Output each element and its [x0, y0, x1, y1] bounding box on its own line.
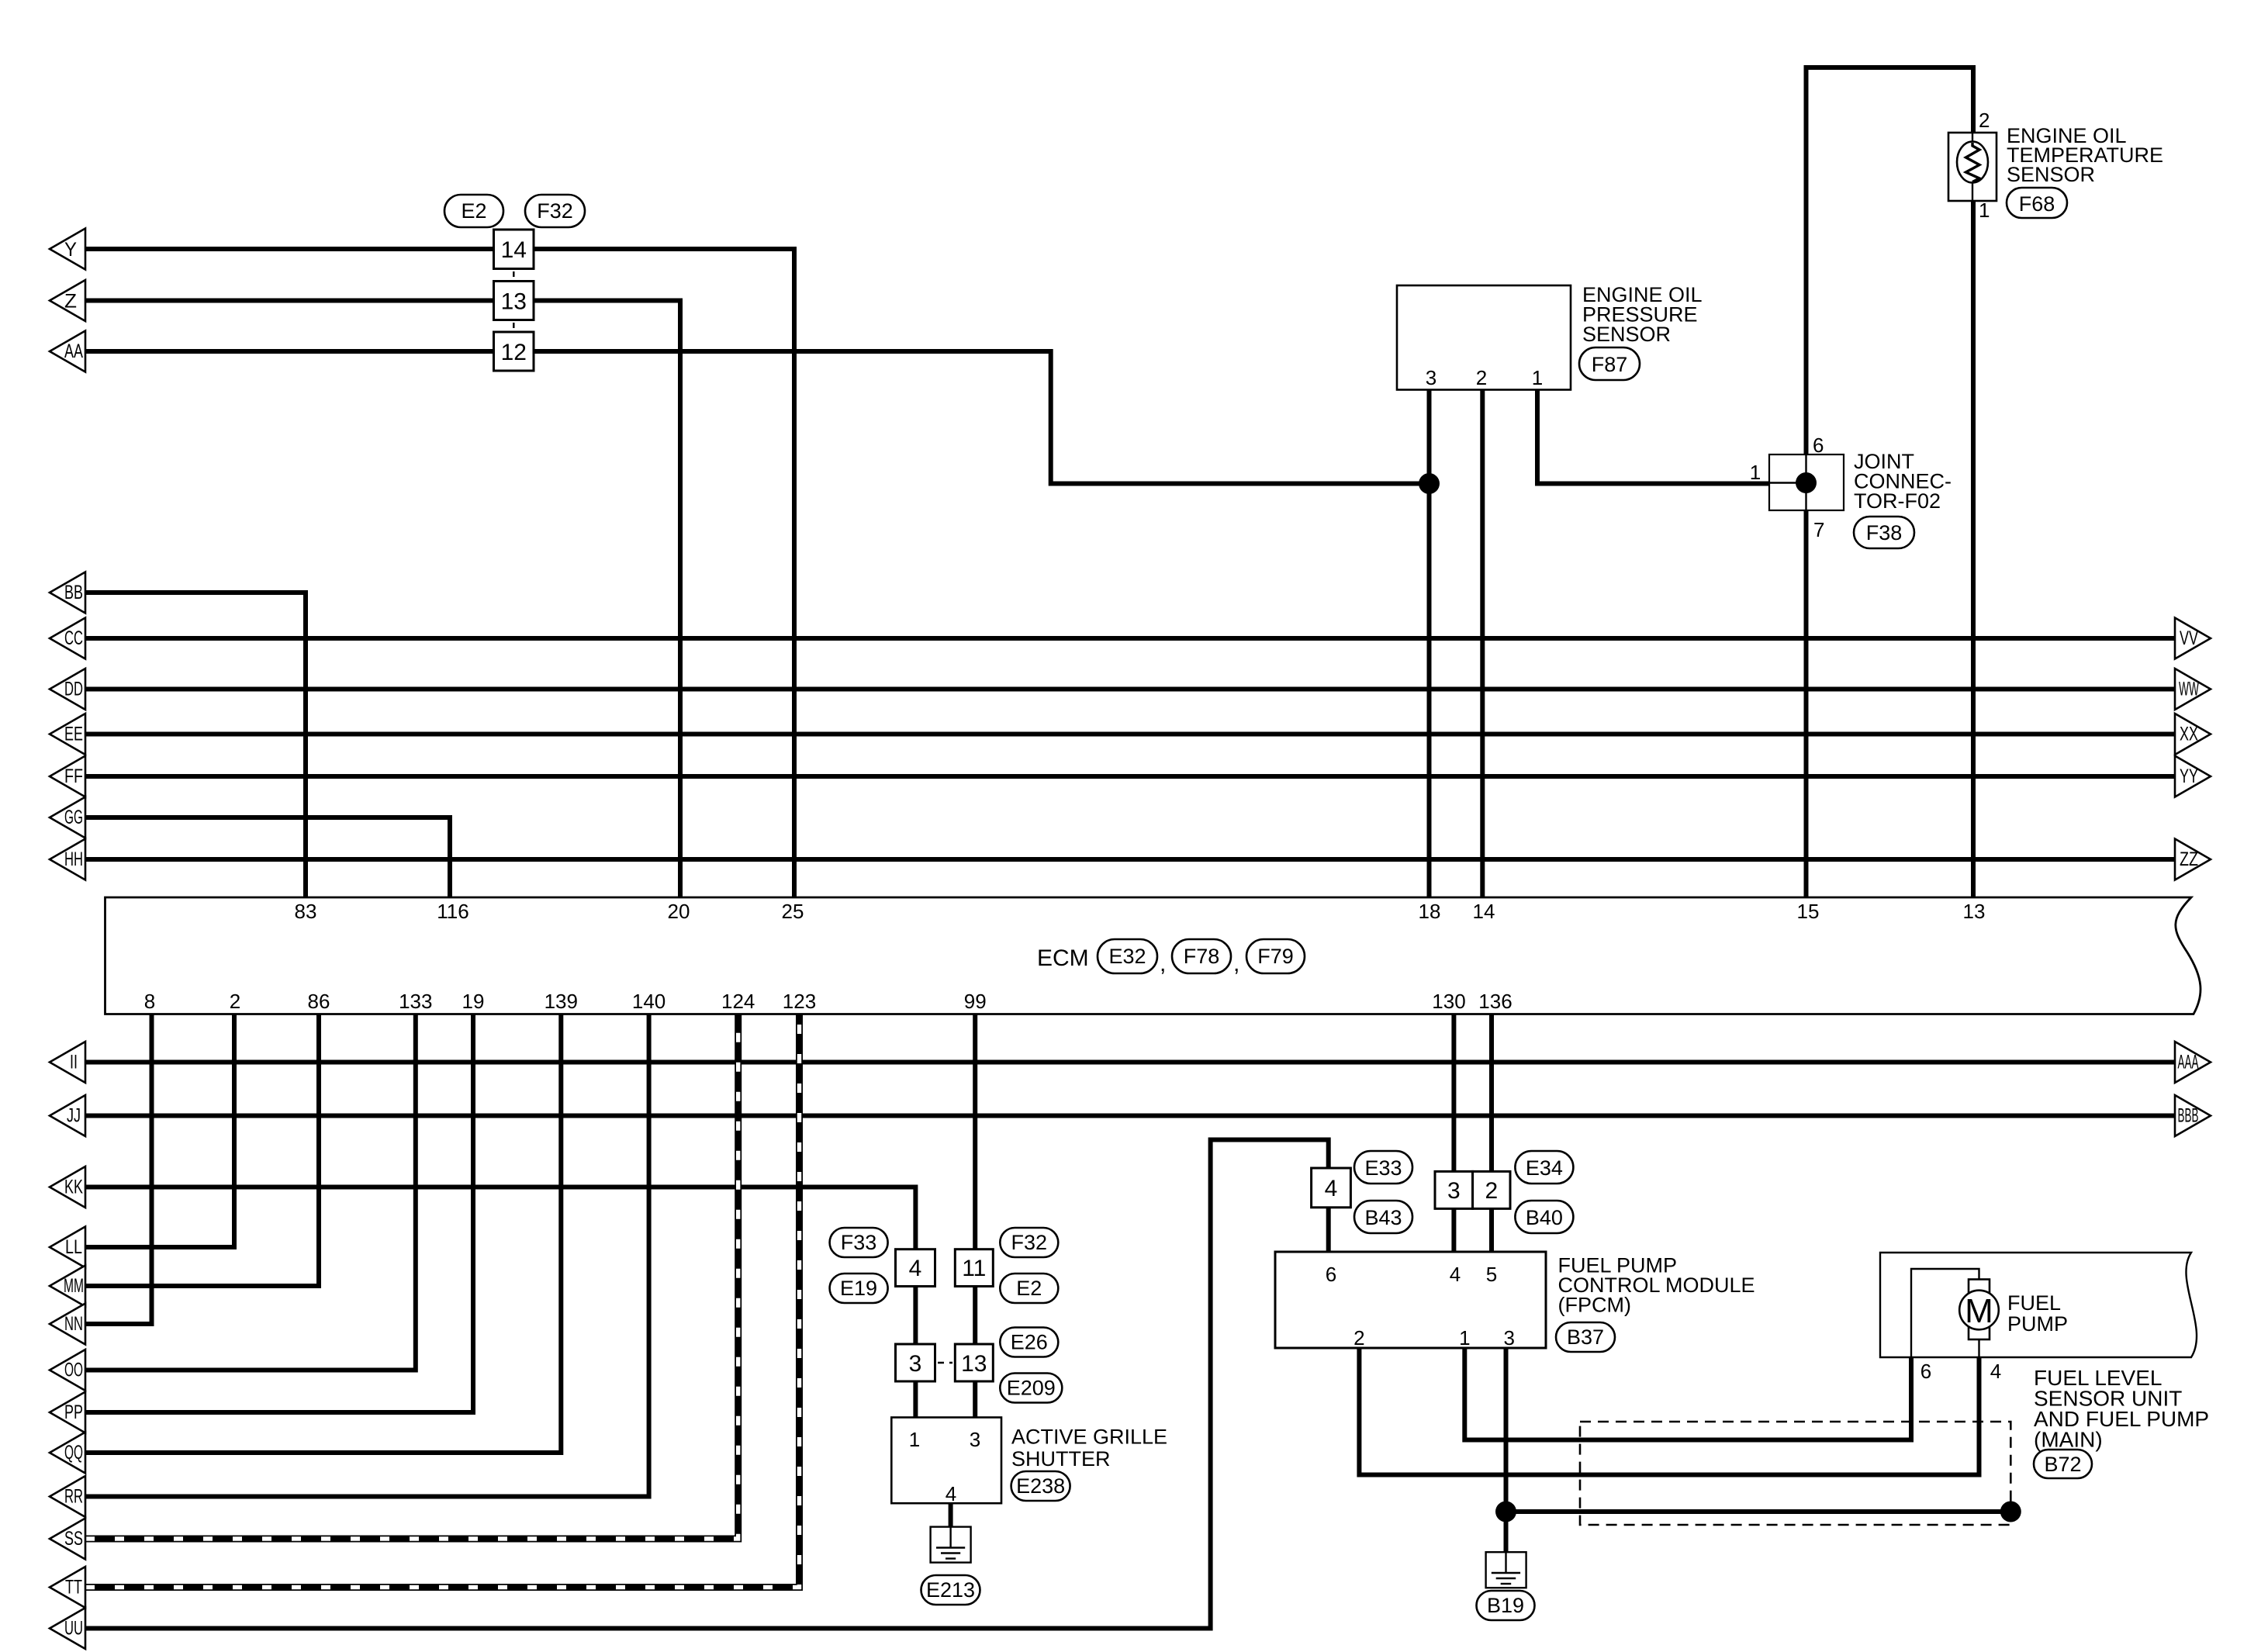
- svg-text:13: 13: [1963, 900, 1986, 923]
- svg-text:3: 3: [1503, 1326, 1514, 1350]
- wire connector 11 to connector 13 on pin 99 column: [973, 1285, 977, 1345]
- wire oil temp sensor pin 1 down to ECM pin 13: [1971, 201, 1976, 897]
- junction node dot fuel level sensor case: [2000, 1502, 2021, 1522]
- svg-text:KK: KK: [64, 1177, 83, 1198]
- arrow GG: [50, 797, 85, 838]
- svg-text:2: 2: [1979, 109, 1990, 132]
- svg-text:14: 14: [501, 237, 527, 263]
- svg-text:1: 1: [1750, 461, 1761, 484]
- fuel pump motor circle: [1959, 1291, 1999, 1330]
- svg-text:SENSOR: SENSOR: [1582, 323, 1671, 346]
- svg-text:5: 5: [1486, 1263, 1497, 1286]
- connector E33/B43 pin 4 box on UU column: [1312, 1168, 1351, 1208]
- connector oval F38: [1854, 517, 1914, 548]
- svg-text:2: 2: [230, 990, 240, 1013]
- arrow WW: [2175, 669, 2211, 710]
- connector oval F68: [2007, 188, 2067, 218]
- svg-text:136: 136: [1478, 990, 1512, 1013]
- connector E2/F32 pin 14 box on Y row: [494, 230, 534, 269]
- svg-text:6: 6: [1813, 434, 1824, 457]
- connector F32/E2 pin 11 box on pin 99 column: [955, 1249, 993, 1287]
- svg-text:2: 2: [1476, 366, 1487, 389]
- arrow ZZ: [2175, 839, 2211, 880]
- arrow II: [50, 1042, 85, 1083]
- svg-text:E238: E238: [1016, 1474, 1065, 1498]
- svg-text:86: 86: [308, 990, 330, 1013]
- svg-text:15: 15: [1797, 900, 1820, 923]
- svg-text:11: 11: [962, 1256, 986, 1281]
- svg-text:3: 3: [1426, 366, 1436, 389]
- svg-text:ZZ: ZZ: [2180, 848, 2198, 870]
- svg-text:13: 13: [961, 1351, 987, 1377]
- svg-text:E2: E2: [1016, 1277, 1042, 1300]
- wire KK row to connector F33/E19 pin 4 column: [85, 1187, 915, 1251]
- svg-text:F32: F32: [537, 199, 573, 223]
- svg-text:F79: F79: [1257, 945, 1294, 968]
- connector oval B72: [2034, 1450, 2092, 1478]
- svg-text:1: 1: [1459, 1326, 1470, 1350]
- wire DD row full width to arrow WW: [85, 687, 2175, 692]
- connector oval F32 mid: [1000, 1228, 1058, 1257]
- svg-text:133: 133: [399, 990, 432, 1013]
- wire JJ row full width to arrow BBB: [85, 1114, 2175, 1118]
- ECM box E32 F78 F79 with torn right edge: [105, 897, 2201, 1014]
- wire FF row full width to arrow YY: [85, 774, 2175, 779]
- svg-text:ECM: ECM: [1037, 945, 1089, 971]
- svg-text:B72: B72: [2044, 1453, 2081, 1476]
- joint connector internal bus: [1769, 454, 1806, 510]
- svg-text:EE: EE: [64, 724, 83, 745]
- svg-text:WW: WW: [2179, 679, 2199, 700]
- wire active grille shutter pin 4 to ground E213: [949, 1503, 953, 1527]
- wire PP row to ECM pin 19 vertical: [85, 1014, 473, 1413]
- svg-text:F33: F33: [841, 1231, 877, 1254]
- connector oval E33: [1354, 1151, 1412, 1184]
- wire UU row rising to connector E33/B43 pin 4 then FPCM pin 6: [85, 1140, 1329, 1629]
- svg-text:F87: F87: [1592, 353, 1628, 376]
- connector E34/B40 pin 2 box: [1473, 1171, 1510, 1208]
- connector dash link 14-13: [513, 271, 514, 279]
- fuel pump internal lead pin 6: [1911, 1269, 1979, 1357]
- svg-text:3: 3: [909, 1351, 922, 1377]
- wire ECM pin 136 down to connector E34/B40 pin 2: [1489, 1014, 1494, 1173]
- svg-text:LL: LL: [65, 1236, 82, 1258]
- svg-text:Z: Z: [64, 291, 77, 313]
- wire pressure sensor pin 3 down to ECM pin 18: [1427, 390, 1432, 898]
- svg-text:B19: B19: [1487, 1594, 1524, 1617]
- svg-text:12: 12: [501, 340, 527, 365]
- wire MM row to ECM pin 86 vertical: [85, 1014, 319, 1287]
- arrow SS: [50, 1519, 85, 1560]
- connector oval E2: [444, 195, 503, 227]
- svg-text:19: 19: [462, 990, 485, 1013]
- wire between connector 4 and connector 3 on KK column: [913, 1285, 918, 1345]
- arrow VV: [2175, 618, 2211, 659]
- wire ECM pin 99 down to connector F32/E2 pin 11: [973, 1014, 977, 1251]
- svg-text:B43: B43: [1364, 1206, 1402, 1229]
- engine oil temperature sensor box: [1948, 133, 1997, 201]
- arrow XX: [2175, 714, 2211, 755]
- wire AA row from arrow AA right, down, right to junction at pressure sensor pin 3: [85, 351, 1430, 484]
- wire connector 13 to active grille shutter pin 3: [973, 1381, 977, 1419]
- thermistor ellipse: [1957, 142, 1988, 183]
- svg-text:4: 4: [1450, 1263, 1461, 1286]
- connector oval E2 mid: [1000, 1274, 1058, 1303]
- wire GG row from arrow GG to corner then down to ECM pin 116: [85, 817, 450, 897]
- svg-text:130: 130: [1432, 990, 1465, 1013]
- connector E2/F32 pin 12 box on AA row: [494, 332, 534, 371]
- dashed wire TT row to ECM pin 123 vertical: [85, 1014, 800, 1588]
- arrow QQ: [50, 1433, 85, 1474]
- svg-text:BBB: BBB: [2178, 1105, 2199, 1127]
- wire FPCM pin 2 to fuel pump pin 4: [1359, 1348, 1979, 1475]
- wire joint connector pin 7 down to ECM pin 15: [1804, 510, 1809, 897]
- svg-text:2: 2: [1485, 1178, 1498, 1204]
- connector oval E238: [1011, 1471, 1070, 1501]
- fuel pump motor terminal block: [1969, 1280, 1990, 1340]
- connector oval E213: [921, 1575, 980, 1605]
- svg-text:XX: XX: [2180, 724, 2198, 745]
- wire BB row from arrow BB to corner then down to ECM pin 83: [85, 593, 306, 897]
- svg-text:TT: TT: [65, 1577, 82, 1598]
- svg-text:M: M: [1965, 1292, 1993, 1330]
- svg-text:3: 3: [1447, 1178, 1461, 1204]
- svg-text:3: 3: [970, 1428, 980, 1451]
- svg-text:F32: F32: [1011, 1231, 1048, 1254]
- svg-text:OO: OO: [64, 1360, 83, 1381]
- wire connector 2 to FPCM pin 5: [1489, 1208, 1494, 1252]
- fuel pump assembly box with torn right edge: [1880, 1253, 2197, 1357]
- svg-text:E32: E32: [1108, 945, 1146, 968]
- arrow CC: [50, 618, 85, 659]
- svg-text:B37: B37: [1567, 1325, 1604, 1349]
- ECM connector oval F78: [1172, 939, 1231, 973]
- fuel pump internal lead pin 4: [1978, 1339, 1979, 1357]
- svg-text:PUMP: PUMP: [2007, 1312, 2068, 1336]
- svg-text:B40: B40: [1526, 1206, 1563, 1229]
- svg-text:FUEL: FUEL: [2007, 1291, 2061, 1315]
- wire HH row full width to arrow ZZ: [85, 857, 2175, 862]
- wire Y row from arrow Y to corner then down to ECM pin 25: [85, 249, 794, 897]
- svg-text:F68: F68: [2019, 192, 2055, 216]
- ground E213 symbol: [931, 1527, 971, 1563]
- junction node dot AA / pressure sensor pin 3: [1419, 473, 1440, 494]
- oil temp sensor internal lead: [1972, 133, 1973, 201]
- engine oil pressure sensor box: [1397, 285, 1571, 390]
- wire pressure sensor pin 2 down to ECM pin 14: [1480, 390, 1485, 898]
- arrow AAA: [2175, 1042, 2211, 1083]
- wire ECM pin 130 down to connector E34/B40 pin 3: [1451, 1014, 1456, 1173]
- arrow UU: [50, 1608, 85, 1649]
- svg-text:20: 20: [668, 900, 690, 923]
- svg-text:124: 124: [721, 990, 755, 1013]
- svg-text:BB: BB: [64, 582, 83, 603]
- svg-text:83: 83: [295, 900, 317, 923]
- connector oval F32: [525, 195, 585, 227]
- svg-text:(FPCM): (FPCM): [1558, 1294, 1631, 1317]
- svg-text:123: 123: [783, 990, 816, 1013]
- svg-text:4: 4: [1325, 1176, 1338, 1201]
- connector E34/B40 pin 3 box: [1435, 1171, 1473, 1208]
- svg-text:Y: Y: [64, 239, 77, 261]
- wire CC row full width to arrow VV: [85, 636, 2175, 641]
- svg-text:ACTIVE GRILLE: ACTIVE GRILLE: [1011, 1426, 1167, 1449]
- svg-text:4: 4: [1990, 1360, 2001, 1383]
- svg-text:1: 1: [909, 1428, 920, 1451]
- wire ground branch to fuel level sensor unit case: [1506, 1509, 2011, 1514]
- svg-text:6: 6: [1326, 1263, 1336, 1286]
- connector oval B43: [1354, 1201, 1412, 1233]
- connector oval E19: [830, 1274, 888, 1303]
- svg-text:140: 140: [632, 990, 666, 1013]
- joint connector internal node dot: [1796, 472, 1817, 493]
- svg-text:116: 116: [437, 900, 468, 923]
- svg-text:AAA: AAA: [2178, 1052, 2199, 1073]
- svg-text:II: II: [70, 1052, 78, 1073]
- arrow BB: [50, 572, 85, 613]
- svg-text:F38: F38: [1866, 521, 1903, 544]
- connector oval F87: [1579, 347, 1640, 380]
- arrow Y: [50, 229, 85, 270]
- svg-text:E213: E213: [926, 1578, 975, 1602]
- svg-text:139: 139: [545, 990, 578, 1013]
- wire NN row to ECM pin 8 vertical: [85, 1014, 152, 1325]
- svg-text:7: 7: [1813, 518, 1824, 541]
- svg-text:6: 6: [1920, 1360, 1931, 1383]
- wire LL row to ECM pin 2 vertical: [85, 1014, 234, 1248]
- svg-text:FF: FF: [64, 766, 83, 787]
- svg-text:PP: PP: [64, 1401, 83, 1423]
- wire Z row from arrow Z to corner then down to ECM pin 20: [85, 301, 680, 898]
- connector oval B37: [1556, 1322, 1615, 1352]
- svg-text:UU: UU: [64, 1618, 83, 1640]
- wire FPCM pin 1 to fuel pump pin 6: [1464, 1348, 1911, 1440]
- arrow OO: [50, 1350, 85, 1391]
- thermistor zigzag: [1966, 143, 1980, 182]
- svg-text:4: 4: [909, 1256, 922, 1281]
- arrow PP: [50, 1392, 85, 1433]
- arrow TT: [50, 1567, 85, 1608]
- arrow KK: [50, 1166, 85, 1208]
- active grille shutter box: [891, 1418, 1001, 1504]
- svg-text:RR: RR: [64, 1486, 83, 1508]
- arrow EE: [50, 714, 85, 755]
- ECM connector oval F79: [1246, 939, 1305, 973]
- svg-text:E33: E33: [1364, 1156, 1402, 1180]
- svg-text:2: 2: [1353, 1326, 1364, 1350]
- svg-text:SHUTTER: SHUTTER: [1011, 1447, 1111, 1471]
- arrow JJ: [50, 1095, 85, 1136]
- ECM connector oval E32: [1098, 939, 1157, 973]
- wire pressure sensor pin 1 to joint connector pin 1: [1537, 390, 1769, 484]
- connector oval E26: [1000, 1328, 1058, 1357]
- svg-text:13: 13: [501, 289, 527, 315]
- svg-text:CC: CC: [64, 627, 83, 649]
- svg-text:99: 99: [964, 990, 987, 1013]
- svg-text:MM: MM: [64, 1275, 84, 1297]
- fuel pump control module FPCM box: [1275, 1252, 1546, 1348]
- svg-text:SS: SS: [64, 1528, 83, 1550]
- svg-text:(MAIN): (MAIN): [2034, 1428, 2103, 1452]
- joint connector F02 box: [1769, 454, 1844, 510]
- connector oval B19: [1477, 1591, 1535, 1620]
- junction node dot FPCM pin 3 ground branch: [1495, 1502, 1516, 1522]
- arrow Z: [50, 280, 85, 321]
- arrow LL: [50, 1227, 85, 1268]
- svg-text:1: 1: [1532, 366, 1543, 389]
- svg-text:E2: E2: [461, 199, 486, 223]
- arrow FF: [50, 756, 85, 797]
- svg-text:DD: DD: [64, 679, 83, 700]
- wire EE row full width to arrow XX: [85, 732, 2175, 737]
- svg-text:F78: F78: [1184, 945, 1220, 968]
- svg-text:E209: E209: [1007, 1377, 1056, 1400]
- connector F33/E19 pin 4 box on KK column: [896, 1249, 935, 1287]
- svg-text:8: 8: [144, 990, 155, 1013]
- svg-text:GG: GG: [64, 807, 83, 828]
- connector oval E34: [1515, 1151, 1573, 1184]
- connector dash link 3-13: [938, 1362, 952, 1363]
- wire QQ row to ECM pin 139 vertical: [85, 1014, 561, 1453]
- arrow DD: [50, 669, 85, 710]
- wire connector E33/B43 pin 4 to FPCM pin 6: [1326, 1207, 1331, 1252]
- svg-text:E34: E34: [1526, 1156, 1563, 1180]
- arrow MM: [50, 1266, 85, 1307]
- wire OO row to ECM pin 133 vertical: [85, 1014, 416, 1370]
- arrow HH: [50, 839, 85, 880]
- dashed wire SS row to ECM pin 124 vertical: [85, 1014, 738, 1540]
- svg-text:E19: E19: [840, 1277, 877, 1300]
- arrow YY: [2175, 756, 2211, 797]
- wire FPCM pin 3 down to ground B19: [1504, 1348, 1509, 1552]
- connector E2/F32 pin 13 box on Z row: [494, 282, 534, 320]
- connector oval F33: [830, 1228, 888, 1257]
- connector oval E209: [1000, 1374, 1062, 1403]
- arrow RR: [50, 1476, 85, 1517]
- ground B19 symbol: [1486, 1552, 1526, 1588]
- svg-text:E26: E26: [1011, 1331, 1048, 1354]
- svg-text:HH: HH: [64, 848, 83, 870]
- svg-text:VV: VV: [2180, 627, 2198, 649]
- wire joint connector pin 6 up and over to oil temp sensor pin 2: [1806, 67, 1974, 454]
- svg-text:,: ,: [1233, 951, 1239, 976]
- wire II row full width to arrow AAA: [85, 1060, 2175, 1065]
- connector dash link 13-12: [513, 323, 514, 330]
- connector oval B40: [1515, 1201, 1573, 1233]
- svg-text:18: 18: [1419, 900, 1441, 923]
- svg-text:AA: AA: [64, 340, 83, 362]
- svg-text:JJ: JJ: [67, 1105, 81, 1127]
- fuel level sensor unit dashed boundary B72: [1580, 1422, 2010, 1525]
- svg-text:QQ: QQ: [64, 1442, 83, 1464]
- svg-text:25: 25: [782, 900, 804, 923]
- arrow AA: [50, 331, 85, 372]
- wire connector 3 to FPCM pin 4: [1451, 1208, 1456, 1252]
- arrow NN: [50, 1304, 85, 1345]
- wire from connector 3 to active grille shutter pin 1: [913, 1381, 918, 1419]
- arrow BBB: [2175, 1095, 2211, 1136]
- svg-text:14: 14: [1473, 900, 1495, 923]
- wire RR row to ECM pin 140 vertical: [85, 1014, 649, 1497]
- svg-text:SENSOR: SENSOR: [2007, 163, 2095, 186]
- svg-text:,: ,: [1160, 951, 1166, 976]
- svg-text:1: 1: [1979, 199, 1990, 222]
- svg-text:YY: YY: [2180, 766, 2198, 787]
- svg-text:4: 4: [946, 1482, 956, 1505]
- svg-text:TOR-F02: TOR-F02: [1854, 489, 1941, 513]
- svg-text:NN: NN: [64, 1313, 83, 1335]
- connector F33/E19 pin 3 box: [896, 1344, 935, 1381]
- connector E26/E209 pin 13 box: [955, 1344, 993, 1381]
